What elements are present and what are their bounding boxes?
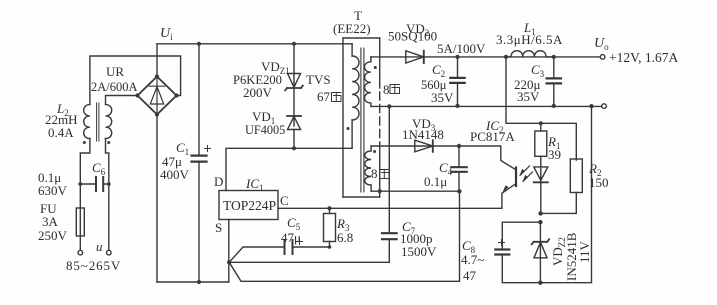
svg-text:5A/100V: 5A/100V bbox=[437, 41, 486, 56]
svg-text:1: 1 bbox=[259, 183, 264, 193]
svg-text:TOP224P: TOP224P bbox=[223, 198, 276, 213]
junction: R1/R2 feed tap on +12V rail bbox=[504, 55, 508, 59]
wire: secondary top to VD2 anode bbox=[371, 56, 424, 58]
optocoupler IC2 phototransistor bar bbox=[515, 168, 517, 187]
label VD1 UF4005 bbox=[245, 109, 285, 137]
svg-text:39: 39 bbox=[548, 147, 561, 162]
transformer T shield box right edge solid top bbox=[379, 38, 381, 88]
transformer T isolation dashed line bbox=[379, 92, 381, 143]
wire: C7 top riser to secondary 0V rail bbox=[388, 106, 390, 233]
diode VD2 50SQ100 bbox=[406, 51, 424, 63]
label C7 1000p 1500V bbox=[400, 219, 437, 259]
junction: R3 top bbox=[327, 206, 331, 210]
label FU 3A 250V bbox=[38, 201, 68, 243]
wire: VD3 cathode to opto collector drop bbox=[433, 146, 516, 170]
terminal: input right bbox=[107, 250, 112, 255]
junction: C4 bottom node bbox=[457, 189, 461, 193]
svg-text:+12V, 1.67A: +12V, 1.67A bbox=[609, 50, 678, 65]
transformer primary winding 67 turns bbox=[352, 56, 359, 120]
optocoupler LED bbox=[534, 167, 548, 181]
label IC2 PC817A bbox=[470, 118, 515, 144]
label C6 0.1u 630V bbox=[38, 160, 106, 198]
wire: top DC rail Ui bbox=[157, 43, 352, 45]
bridge inner diode bbox=[149, 77, 164, 115]
junction: bridge left vertex bbox=[135, 93, 139, 97]
label IC1 bbox=[245, 176, 264, 193]
svg-text:S: S bbox=[215, 220, 222, 235]
transformer feedback winding 8 turns bbox=[365, 146, 371, 191]
wire: S fan diagonal up to C5 bbox=[229, 247, 284, 262]
svg-text:35V: 35V bbox=[431, 90, 454, 105]
wire: bridge top to rail bbox=[156, 44, 158, 77]
label 8 turns lower bbox=[371, 166, 378, 181]
wire: S fan horizontal to C7 bottom bbox=[229, 261, 389, 263]
label VD2 50SQ100 5A/100V bbox=[388, 21, 486, 56]
junction: zener bottom on rail bbox=[538, 281, 542, 285]
diode VD3 1N4148 bbox=[415, 140, 433, 152]
label T (EE22) bbox=[333, 8, 371, 36]
svg-text:Uo: Uo bbox=[594, 36, 609, 52]
node Ui label bbox=[160, 26, 173, 42]
junction: S fan node bbox=[227, 260, 231, 264]
wire: secondary 0V rail bbox=[371, 105, 602, 107]
terminal: +12V output bbox=[600, 55, 605, 60]
junction: R1 top tap bbox=[539, 121, 543, 125]
wire: R2 bottom to LED node bbox=[541, 193, 577, 214]
svg-text:47: 47 bbox=[463, 268, 477, 283]
upper secondary phase dot bbox=[374, 66, 377, 69]
transformer T shield box left edge bbox=[342, 38, 344, 197]
wire: C7 bottom riser bbox=[388, 239, 390, 262]
primary phase dot bbox=[347, 127, 350, 130]
pin C label bbox=[280, 193, 289, 208]
svg-text:0.1μ: 0.1μ bbox=[424, 174, 447, 189]
svg-text:TVS: TVS bbox=[306, 72, 331, 87]
svg-text:C6: C6 bbox=[92, 160, 106, 177]
capacitor C2 bbox=[457, 57, 459, 106]
bridge rectifier UR bbox=[138, 77, 177, 115]
junction: C3 top bbox=[552, 55, 556, 59]
svg-text:2A/600A: 2A/600A bbox=[91, 80, 138, 94]
svg-text:4.7~: 4.7~ bbox=[461, 252, 484, 267]
transformer T shield box bottom edge bbox=[343, 196, 380, 198]
optocoupler emitter with arrow bbox=[502, 184, 516, 208]
inductor L1 bbox=[506, 51, 554, 57]
label R1 39 bbox=[547, 134, 561, 162]
junction: C4 top tap bbox=[457, 144, 461, 148]
junction: bridge right vertex bbox=[174, 93, 178, 97]
transformer upper secondary winding 8 turns bbox=[365, 57, 371, 107]
svg-text:PC817A: PC817A bbox=[470, 129, 515, 144]
fuse FU bbox=[76, 208, 84, 236]
junction: C7 on 0V rail bbox=[387, 104, 391, 108]
svg-text:C2: C2 bbox=[432, 62, 445, 79]
svg-text:11V: 11V bbox=[577, 240, 592, 263]
wire: VD1 anode to drain wire bbox=[293, 130, 295, 149]
label VD3 1N4148 bbox=[402, 116, 444, 142]
label C8 4.7~ 47 bbox=[461, 238, 484, 283]
junction: 0V return riser bbox=[589, 104, 593, 108]
junction: C3 bottom bbox=[552, 104, 556, 108]
label R2 150 bbox=[588, 161, 609, 190]
capacitor C4 bbox=[451, 167, 466, 172]
svg-text:200V: 200V bbox=[243, 85, 273, 100]
svg-text:(EE22): (EE22) bbox=[333, 21, 371, 36]
capacitor C6 bbox=[80, 183, 109, 185]
wire: S pin down to bottom rail bbox=[228, 220, 230, 283]
junction: C6 left node bbox=[78, 182, 82, 186]
label C1 47u 400V bbox=[160, 140, 190, 182]
label C4 0.1u bbox=[424, 160, 453, 189]
terminal: input left bbox=[78, 250, 83, 255]
junction: R3 bottom bbox=[328, 245, 332, 249]
wire: TVS anode to VD1 cathode bbox=[293, 88, 295, 127]
svg-text:C: C bbox=[280, 193, 289, 208]
optocoupler light arrows bbox=[520, 166, 533, 182]
transformer T shield box right edge solid bottom bbox=[379, 143, 381, 197]
transformer T shield box top edge bbox=[343, 37, 380, 39]
capacitor C5 bbox=[285, 240, 293, 254]
wire: C pin control line to opto emitter bbox=[278, 207, 502, 209]
junction: bridge top vertex bbox=[155, 74, 159, 78]
junction: C2 bottom bbox=[455, 104, 459, 108]
svg-text:630V: 630V bbox=[38, 183, 68, 198]
feedback winding phase dot bbox=[373, 150, 376, 153]
junction: clamp on drain wire bbox=[292, 146, 296, 150]
label C5 47u bbox=[281, 215, 301, 245]
wire: C5 right to R3 bottom bbox=[293, 246, 330, 248]
wire: C8 top branch bbox=[502, 222, 540, 249]
junction: feedback return on box edge bbox=[378, 189, 382, 193]
wire: rail into primary top bbox=[351, 44, 353, 56]
label UR 2A/600A bbox=[91, 64, 138, 94]
wire: bridge left vertex to L2 right winding top bbox=[106, 96, 138, 105]
label L2 22mH 0.4A bbox=[45, 101, 78, 140]
wire: loop from L2 left top over to bridge right vertex bbox=[90, 56, 181, 104]
label 67 turns bbox=[317, 89, 331, 104]
wire: L2 left bottom jog to fuse branch bbox=[80, 139, 90, 185]
wire: S fan diagonal down to long bottom wire bbox=[229, 191, 459, 281]
svg-text:u: u bbox=[96, 239, 103, 254]
C5 plus sign bbox=[297, 239, 303, 245]
svg-text:D: D bbox=[214, 174, 223, 189]
wire: feedback top to VD3 anode bbox=[371, 145, 433, 147]
TVS diode VDZ1 P6KE200 bbox=[288, 74, 301, 88]
C1 plus sign bbox=[205, 146, 211, 152]
junction: C8 top node bbox=[538, 220, 542, 224]
svg-text:6.8: 6.8 bbox=[337, 230, 353, 245]
wire: feedback bottom return to C4 bbox=[371, 190, 459, 192]
junction: clamp chain top on rail bbox=[292, 42, 296, 46]
svg-text:67: 67 bbox=[317, 89, 331, 104]
svg-text:400V: 400V bbox=[160, 167, 190, 182]
svg-text:8: 8 bbox=[371, 166, 378, 181]
wire: right input branch down bbox=[108, 184, 110, 250]
junction: bridge bottom vertex bbox=[155, 112, 159, 116]
wire: C1 branch lower bbox=[198, 162, 200, 282]
svg-text:UF4005: UF4005 bbox=[245, 123, 285, 137]
wire: drain wire from D pin corner to primary bottom bbox=[226, 148, 352, 190]
junction: LED cathode / R2 node bbox=[538, 211, 542, 215]
zener diode VDZ2 bbox=[539, 222, 541, 258]
svg-text:8: 8 bbox=[383, 82, 390, 97]
capacitor C3 bbox=[553, 57, 555, 106]
terminal: 0V output bbox=[602, 104, 607, 109]
wire: primary bottom rail bbox=[157, 281, 229, 283]
resistor R2 bbox=[570, 159, 582, 193]
label C3 220u 35V bbox=[514, 62, 545, 104]
svg-text:Ui: Ui bbox=[160, 26, 173, 42]
diode VD1 UF4005 bbox=[287, 115, 301, 117]
L2 phase dot left bbox=[83, 141, 86, 144]
wire: primary bottom to drain wire bbox=[351, 120, 353, 148]
inductor L2 common-mode choke left winding bbox=[84, 105, 90, 139]
pin D label bbox=[214, 174, 223, 189]
L2 core lines bbox=[97, 103, 99, 141]
svg-text:47μ: 47μ bbox=[281, 230, 301, 245]
svg-text:0.4A: 0.4A bbox=[48, 125, 74, 140]
wire: C1 branch upper bbox=[198, 44, 200, 155]
transformer core lines bbox=[361, 48, 364, 192]
junction: C1 top on rail bbox=[197, 42, 201, 46]
C8 plus sign bbox=[499, 240, 505, 246]
label VDZ2 IN5241B 11V rotated bbox=[550, 232, 592, 281]
inductor L2 right winding bbox=[106, 105, 112, 139]
svg-text:UR: UR bbox=[106, 64, 124, 79]
wire: L2 right bottom jog down bbox=[106, 139, 109, 185]
wire: C8 bottom to right bottom rail bbox=[502, 106, 591, 283]
svg-text:IC: IC bbox=[245, 176, 259, 191]
wire: fuse branch down bbox=[79, 184, 81, 250]
capacitor C1 bbox=[192, 156, 207, 162]
label 8 turns upper bbox=[383, 82, 390, 97]
junction: C6 right node bbox=[107, 182, 111, 186]
label R3 6.8 bbox=[336, 216, 353, 245]
IC U1 TOP224P box bbox=[219, 191, 278, 220]
svg-text:85~265V: 85~265V bbox=[66, 258, 121, 273]
junction: C1 bottom on rail bbox=[197, 280, 201, 284]
label C2 560u 35V bbox=[421, 62, 454, 105]
svg-text:3.3μH/6.5A: 3.3μH/6.5A bbox=[496, 32, 563, 47]
junction: C2 top bbox=[455, 55, 459, 59]
svg-text:1500V: 1500V bbox=[401, 244, 437, 259]
wire: rail to TVS cathode bbox=[293, 44, 295, 88]
resistor R1 bbox=[540, 123, 542, 182]
label L1 3.3uH/6.5A bbox=[496, 20, 563, 47]
wire: LED cathode down bbox=[540, 182, 542, 213]
L2 phase dot right bbox=[107, 141, 110, 144]
resistor R3 bbox=[329, 208, 331, 247]
svg-text:250V: 250V bbox=[38, 228, 68, 243]
capacitor C8 bbox=[495, 250, 509, 255]
wire: VD2 cathode to +12V rail bbox=[424, 56, 600, 58]
capacitor C7 bbox=[382, 233, 397, 239]
svg-text:1N4148: 1N4148 bbox=[402, 127, 444, 142]
label VDZ1 P6KE200 200V TVS bbox=[233, 59, 331, 100]
label Uo +12V 1.67A bbox=[594, 36, 678, 65]
svg-text:35V: 35V bbox=[517, 89, 540, 104]
wire: +12V tap down and across to R1/R2 bbox=[506, 57, 576, 160]
label u 85~265V bbox=[66, 239, 121, 273]
svg-text:50SQ100: 50SQ100 bbox=[388, 29, 437, 44]
svg-text:3A: 3A bbox=[42, 214, 59, 229]
pin S label bbox=[215, 220, 222, 235]
wire: bridge bottom down to primary bottom rail bbox=[156, 115, 158, 283]
